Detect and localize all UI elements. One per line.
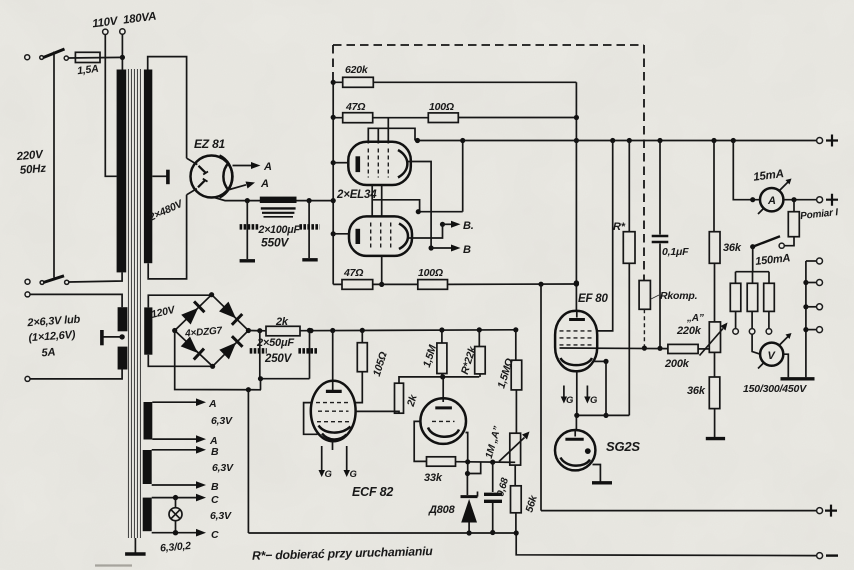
transformer HV winding 2x480V [144, 70, 152, 264]
resistor 2k anode [395, 383, 404, 413]
arrow C1 [152, 497, 196, 499]
capacitor 2x50uF right [307, 328, 312, 333]
wire pentode cathode [466, 433, 468, 474]
resistor 33k [427, 457, 456, 466]
svg-text:6,3V: 6,3V [210, 510, 232, 522]
resistor 1,5MOhm [515, 330, 517, 360]
svg-text:100Ω: 100Ω [429, 101, 454, 113]
wire to primary bottom [69, 272, 122, 282]
svg-text:47Ω: 47Ω [343, 267, 363, 279]
zener diode D808 [461, 495, 478, 498]
svg-text:Д808: Д808 [428, 504, 456, 516]
diode D3 [180, 336, 204, 360]
svg-text:ECF 82: ECF 82 [352, 485, 393, 499]
resistor 1,5M [441, 330, 443, 343]
terminal Pomiar I [817, 197, 823, 203]
capacitor 0,68 [490, 460, 495, 465]
svg-text:G: G [325, 469, 333, 480]
arrow A cathode 2 [226, 185, 246, 191]
svg-text:Rkomp.: Rkomp. [660, 290, 698, 302]
wire 110V tap [105, 35, 117, 177]
EL34 upper cathode [356, 156, 361, 172]
wire triode cathode stem [332, 441, 334, 450]
arrow B1 [152, 449, 196, 451]
diode D1 [181, 301, 205, 325]
diode D2 [219, 301, 243, 325]
svg-text:220k: 220k [676, 325, 702, 337]
voltmeter V [752, 334, 760, 354]
ground cap2 [302, 258, 317, 261]
svg-text:47Ω: 47Ω [345, 101, 365, 113]
EF80 heater arrows G [563, 386, 565, 397]
terminal range 3 [803, 304, 808, 309]
wire minus branch [540, 284, 542, 510]
wire to shunts [736, 247, 770, 272]
wire B2+ rail [300, 329, 516, 332]
svg-text:G: G [350, 469, 358, 480]
shunt resistor 1 [735, 272, 737, 284]
wire heater winding top [30, 294, 122, 307]
terminal range 1 [806, 260, 817, 262]
capacitor 2x50uF left [259, 331, 261, 379]
EL34 upper anode arc [398, 150, 407, 178]
svg-text:50Hz: 50Hz [19, 163, 46, 177]
wire EL34 upper grid to bus [368, 128, 415, 143]
svg-text:A: A [767, 195, 776, 207]
svg-text:C: C [211, 529, 219, 541]
svg-text:A: A [260, 178, 269, 190]
capacitor 0,1uF [659, 141, 661, 235]
wire cap2 ground [308, 201, 310, 258]
svg-text:G: G [590, 395, 598, 406]
svg-text:620k: 620k [345, 64, 369, 76]
EZ81 anode wire top [187, 158, 198, 164]
wire heater winding bottom [30, 370, 122, 379]
wire anode rail 620k-EF80 [575, 82, 577, 311]
wire cap1 ground [246, 201, 248, 259]
svg-text:EZ 81: EZ 81 [194, 137, 226, 151]
svg-text:EF 80: EF 80 [578, 293, 608, 305]
wire EL34 upper cathode left [333, 162, 349, 164]
svg-text:A: A [208, 398, 216, 410]
wire triode grid loop [304, 403, 318, 435]
wire EL34 upper anode to B [408, 162, 431, 249]
ground voltmeter [781, 377, 815, 380]
node cap1 [245, 198, 250, 203]
node Rkomp bottom [642, 346, 647, 351]
tube ECF82 triode [332, 331, 334, 391]
svg-text:6,3V: 6,3V [212, 462, 234, 474]
stabilizer tube SG2S [575, 415, 577, 430]
nodes on B2+ rail [308, 328, 313, 333]
wire bridge plus [248, 330, 266, 332]
terminal 180VA [120, 29, 125, 34]
EL34 lower grids [371, 223, 391, 250]
svg-text:2×50μF: 2×50μF [256, 337, 294, 349]
svg-text:150/300/450V: 150/300/450V [743, 383, 807, 395]
tube EL34 lower envelope [349, 216, 412, 256]
svg-text:36k: 36k [723, 242, 742, 254]
ground cap1 [240, 259, 255, 262]
resistor 36k lower [714, 352, 716, 377]
svg-text:200k: 200k [664, 358, 690, 370]
tube EL34 upper envelope [348, 142, 411, 185]
wire EL34 lower grid row [418, 211, 462, 213]
terminal range 4 [803, 327, 808, 332]
node B2 [429, 245, 434, 250]
arrow C2 [152, 532, 196, 534]
wire triode grid right [355, 411, 400, 413]
transformer heater winding 2x6,3V lower [118, 347, 128, 370]
svg-text:550V: 550V [261, 236, 289, 250]
EF80 grids [560, 331, 594, 345]
svg-text:100Ω: 100Ω [418, 267, 443, 279]
transformer 6,3V winding B [143, 450, 152, 484]
wire bridge minus [175, 331, 261, 390]
svg-text:„A”: „A” [686, 313, 704, 324]
bridge rectifier wires [148, 295, 211, 308]
bus B+ top [415, 140, 817, 142]
wire EL34 lower anode to B [409, 224, 443, 238]
EF80 cathode arc [561, 358, 593, 365]
transformer core [128, 69, 140, 538]
wire EL34 upper g2 [387, 118, 389, 144]
node minus branch [538, 282, 543, 287]
lamp 6,3/0,2 [175, 498, 177, 533]
resistor Rkomp [639, 281, 650, 310]
bottom common bus [248, 533, 816, 556]
wire to bus [462, 141, 464, 212]
EZ81 anode plate 2 [198, 180, 206, 188]
wire EL34 interstage stubs [372, 185, 419, 217]
svg-text:B: B [211, 446, 219, 458]
ground 36k [706, 437, 725, 440]
plus output bus [541, 510, 817, 512]
arrow A cathode 1 [233, 165, 252, 167]
wire HV bottom to rectifier [148, 195, 186, 279]
transformer heater winding 2x6,3V upper [118, 307, 128, 331]
wire voltmeter ground [783, 354, 788, 377]
wire pentode grid loop [414, 421, 426, 461]
node EF80 top [574, 280, 579, 285]
wire HV top to rectifier [148, 57, 187, 159]
resistor R*22k [478, 330, 480, 347]
svg-text:SG2S: SG2S [606, 439, 640, 454]
terminal 110V [103, 29, 108, 34]
wire minus to bottom bus [247, 390, 249, 533]
ground core [134, 538, 136, 553]
range rail [805, 261, 807, 377]
EL34 upper grids [368, 149, 388, 178]
dashed box top edge [333, 44, 644, 46]
svg-text:2×EL34: 2×EL34 [336, 189, 377, 201]
resistor 200k [668, 344, 698, 353]
dashed box left edge [332, 45, 334, 82]
arrow A1 [152, 401, 196, 403]
diode D4 [219, 336, 243, 360]
svg-text:A: A [263, 161, 272, 173]
wire EF80 grid2 row [560, 347, 668, 350]
wire switch pole [53, 52, 55, 278]
wire EF80 g2 [594, 360, 606, 362]
svg-text:220V: 220V [15, 149, 45, 163]
resistor 36k upper [713, 141, 715, 232]
resistor 105R [361, 330, 363, 342]
arrow B2 [152, 484, 196, 486]
resistor pomiar [793, 200, 795, 212]
potentiometer 220k A [709, 322, 720, 353]
EL34 lower cathode [356, 229, 361, 244]
svg-text:36k: 36k [687, 385, 706, 397]
svg-text:6,3V: 6,3V [211, 415, 233, 427]
wire caps bottom [260, 378, 310, 380]
wire EL34 lower cathode left [333, 233, 350, 235]
svg-text:B: B [211, 481, 219, 493]
wire EL34 lower cathode down [381, 256, 383, 285]
node pentode anode [440, 374, 445, 379]
svg-text:33k: 33k [424, 472, 443, 484]
ammeter A [733, 141, 760, 200]
arrow B2 [431, 247, 451, 249]
label 220V 50Hz [15, 149, 47, 177]
label 110V 180VA [92, 11, 157, 31]
transformer 120V winding [144, 307, 152, 354]
terminal heater a [25, 292, 30, 297]
HV center tap [152, 175, 166, 177]
svg-text:5A: 5A [41, 346, 56, 359]
rectifier tube EZ81 [191, 156, 233, 198]
wire zener jog [467, 462, 480, 495]
heater winding center tap [119, 334, 124, 339]
tube ECF82 pentode [442, 377, 444, 402]
svg-text:250V: 250V [264, 353, 293, 365]
capacitor 2x100uF 550V [260, 197, 297, 203]
terminal heater b [25, 376, 30, 381]
node lamp top [173, 495, 178, 500]
wire 180VA down to primary [121, 34, 123, 69]
svg-text:B.: B. [463, 220, 474, 232]
wire EF80 cathode [577, 371, 630, 415]
wire SG2S cathode [593, 465, 601, 483]
transformer 6,3V winding C [143, 498, 152, 532]
transformer primary winding 220V [117, 70, 127, 273]
terminal B+ [817, 138, 823, 144]
svg-text:G: G [566, 395, 574, 406]
arrow A2 [152, 438, 196, 440]
arrow B1 [443, 223, 452, 225]
terminal minus [817, 553, 823, 559]
potentiometer 1M A [510, 433, 521, 465]
switch 150mA [750, 244, 755, 249]
shunt resistor 3 [768, 272, 770, 284]
shunt resistor 2 [752, 272, 754, 284]
EL34 lower anode arc [399, 224, 408, 250]
node cap2 [307, 198, 312, 203]
terminal plus [817, 508, 823, 514]
switch S1a [25, 55, 30, 60]
transformer 6,3V winding A [144, 402, 153, 440]
svg-text:0,1μF: 0,1μF [662, 246, 689, 258]
resistor 56k [514, 465, 516, 486]
wire bus to EF80 grid [597, 141, 613, 331]
EF80 anode bar [576, 311, 578, 318]
svg-text:C: C [211, 494, 219, 506]
dashed box right edge [643, 45, 645, 281]
switch S1b [25, 279, 30, 284]
fuse 1,5A [64, 56, 68, 60]
wire box left rail [332, 82, 334, 284]
terminal range 2 [803, 280, 808, 285]
svg-text:B: B [463, 244, 471, 256]
ground SG2S [592, 481, 612, 484]
EZ81 anode plate 1 [199, 166, 207, 173]
node fuse junction [120, 55, 125, 60]
svg-text:2×100μF: 2×100μF [258, 224, 301, 236]
bridge diamond [175, 295, 249, 367]
EZ81 anode wire bottom [187, 189, 197, 195]
wire EZ81 output [214, 197, 334, 200]
node lamp bottom [173, 530, 178, 535]
ECF82 heater arrows G [321, 446, 323, 470]
wire ammeter right [783, 199, 816, 201]
label 2x6,3V lub (1x12,6V) 5A [26, 314, 83, 361]
node B1 [440, 222, 445, 227]
EZ81 cathode arcs [220, 156, 233, 198]
